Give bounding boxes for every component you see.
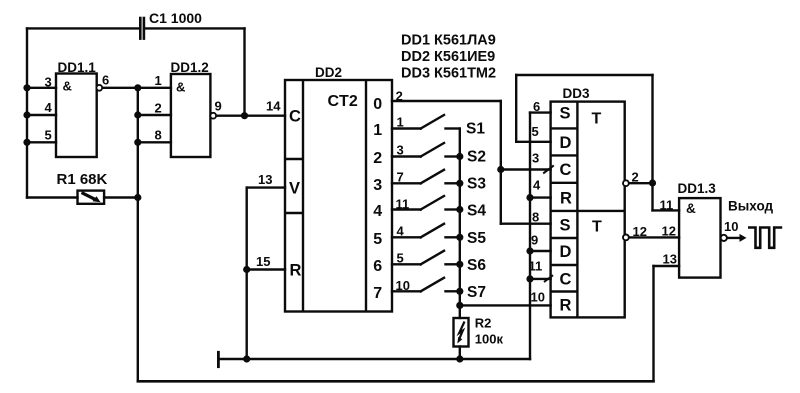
wire reset line to DD3 pin 10 <box>460 304 551 306</box>
resistor R1 body <box>78 191 105 204</box>
capacitor C1 <box>140 18 144 39</box>
svg-text:3: 3 <box>397 143 404 158</box>
svg-text:DD1.2: DD1.2 <box>171 60 209 75</box>
IC DD2 left column divider <box>302 80 304 312</box>
junction DD3 pin 2 output node <box>649 179 656 186</box>
svg-text:100к: 100к <box>475 332 504 347</box>
svg-text:D: D <box>560 243 572 261</box>
junction common rail left <box>243 355 250 362</box>
wire DD2 output 7 stub <box>392 290 421 292</box>
svg-text:2: 2 <box>632 170 639 185</box>
wire common rail <box>218 358 530 360</box>
svg-text:DD2: DD2 <box>315 65 342 80</box>
IC DD3 flip-flop divider <box>551 210 625 212</box>
wire left bus vertical <box>26 28 28 197</box>
IC DD2 body <box>285 80 392 312</box>
wire DD1.3 output arrow line <box>727 237 741 239</box>
IC DD3 S1-D1 cell line <box>551 127 578 129</box>
junction S3 <box>456 180 463 187</box>
junction DD2 pin 15 node <box>243 266 250 273</box>
svg-text:10: 10 <box>396 278 410 293</box>
wire feedback up leg <box>651 75 653 183</box>
svg-text:DD2 К561ИЕ9: DD2 К561ИЕ9 <box>401 49 495 65</box>
wire DD3 pin 2 output to node <box>629 182 652 184</box>
svg-text:7: 7 <box>373 285 382 302</box>
junction DD1.1 pin 5 <box>23 139 30 146</box>
junction DD1.1 pin 4 <box>23 111 30 118</box>
switch S4 <box>421 196 459 210</box>
junction DD1.1 pin 3 <box>23 84 30 91</box>
svg-text:4: 4 <box>45 100 53 115</box>
IC DD3 D2-C2 cell line <box>551 264 578 266</box>
wire top rail right of C1 <box>145 27 245 29</box>
svg-text:T: T <box>592 219 602 236</box>
wire DD2 output 5 stub <box>392 236 421 238</box>
svg-text:4: 4 <box>397 224 405 239</box>
wire DD2 output 6 stub <box>392 263 421 265</box>
junction DD2 pin 14 node <box>241 112 248 119</box>
svg-text:1: 1 <box>397 115 404 130</box>
wire DD3 pin 9 stub <box>530 250 551 252</box>
output waveform symbol <box>748 228 782 248</box>
svg-text:S2: S2 <box>467 149 486 166</box>
wire DD2 output 1 stub <box>392 127 421 129</box>
junction switch bus R2 top <box>456 302 463 309</box>
arrowhead output <box>740 234 747 242</box>
svg-text:R: R <box>290 262 302 280</box>
wire DD2 output 3 stub <box>392 182 421 184</box>
inversion bubble DD3 pin 2 <box>623 180 629 186</box>
wire DD1.3 pin 13 down leg <box>652 266 654 381</box>
svg-text:CT2: CT2 <box>328 93 358 110</box>
svg-text:6: 6 <box>373 258 382 275</box>
wire R1 to mid bus <box>104 196 138 198</box>
wire R2 bottom to common rail <box>459 347 461 360</box>
svg-text:12: 12 <box>633 224 647 239</box>
junction S4 <box>456 206 463 213</box>
wire bottom rail <box>138 380 654 383</box>
junction DD3 pin 4 <box>526 194 533 201</box>
wire DD3 pin 4 stub <box>530 196 551 198</box>
svg-text:&: & <box>63 79 72 94</box>
wire switch bus to R2 <box>459 305 461 318</box>
svg-text:5: 5 <box>532 124 539 139</box>
wire C1 right leg down to node at DD2 pin 14 <box>243 28 245 115</box>
junction DD3 pin 3 clock node <box>497 166 504 173</box>
svg-text:8: 8 <box>155 128 162 143</box>
svg-text:5: 5 <box>45 128 52 143</box>
svg-text:14: 14 <box>266 99 281 114</box>
svg-text:DD3: DD3 <box>563 86 590 101</box>
svg-text:13: 13 <box>258 172 272 187</box>
svg-text:C: C <box>560 161 572 179</box>
svg-text:S5: S5 <box>467 230 486 247</box>
wire DD1.3 pin 13 stub <box>654 265 680 267</box>
svg-text:11: 11 <box>529 259 543 274</box>
inversion bubble DD3 pin 12 <box>623 235 629 241</box>
dynamic input slash DD3 C1 <box>544 166 553 173</box>
IC DD2 C-V cell line <box>285 158 303 160</box>
junction mid bus pin 6 <box>134 84 141 91</box>
IC DD3 C1-R1 cell line <box>551 182 578 184</box>
svg-text:0: 0 <box>373 96 382 113</box>
wire DD2 output 0 down leg <box>500 101 502 170</box>
svg-text:S: S <box>560 217 571 235</box>
wire DD2 output 4 stub <box>392 208 421 210</box>
resistor R2 bolt arrowhead <box>457 337 462 344</box>
svg-text:C: C <box>560 271 572 289</box>
wire DD3 common bus vertical <box>529 113 531 359</box>
IC DD3 S2-D2 cell line <box>551 237 578 239</box>
svg-text:1: 1 <box>373 122 382 139</box>
wire DD3 pin 6 stub <box>530 111 551 113</box>
wire DD3 pin 3 stub <box>501 168 551 170</box>
IC DD2 right column divider <box>365 80 367 312</box>
wire top rail left of C1 <box>27 27 139 29</box>
resistor R2 bolt <box>459 322 465 341</box>
svg-text:4: 4 <box>373 203 382 220</box>
svg-text:2: 2 <box>155 101 162 116</box>
svg-text:5: 5 <box>373 231 382 248</box>
svg-text:S7: S7 <box>467 284 486 301</box>
switch S2 <box>421 143 459 157</box>
wire feedback top horizontal <box>516 74 652 76</box>
wire DD1.2 output pin 9 to DD2 pin 14 <box>216 114 285 116</box>
svg-text:15: 15 <box>256 254 270 269</box>
svg-text:&: & <box>176 80 185 95</box>
IC DD3 C2-R2 cell line <box>551 290 578 292</box>
wire feedback down leg to DD3 pin 5 <box>515 75 517 142</box>
svg-text:S3: S3 <box>467 176 486 193</box>
wire node to DD3 pin 8 down leg <box>500 170 502 224</box>
wire DD3 pin 5 stub <box>516 141 550 143</box>
wire DD2 output 2 stub <box>392 155 421 157</box>
svg-text:R: R <box>560 190 572 208</box>
wire DD3 pin 12 output to DD1.3 pin 12 <box>629 236 679 238</box>
junction S5 <box>456 234 463 241</box>
resistor R1 slash <box>82 193 97 200</box>
svg-text:7: 7 <box>397 170 404 185</box>
IC DD3 D1-C1 cell line <box>551 154 578 156</box>
svg-text:C: C <box>289 108 301 126</box>
wire DD3 pin 11 stub <box>530 278 551 280</box>
svg-text:11: 11 <box>396 197 410 212</box>
svg-text:D: D <box>560 134 572 152</box>
svg-text:6: 6 <box>102 73 109 88</box>
svg-text:2: 2 <box>396 89 403 104</box>
wire DD1.1 pin 4 stub <box>27 114 56 116</box>
resistor R2 body <box>454 318 469 347</box>
junction DD3 pin 9 <box>526 247 533 254</box>
svg-text:S6: S6 <box>467 257 486 274</box>
junction mid bus pin 8 <box>134 139 141 146</box>
IC DD3 body <box>551 102 625 318</box>
junction S2 <box>456 153 463 160</box>
wire DD2 V-R vertical <box>245 188 247 359</box>
svg-text:S1: S1 <box>466 121 485 138</box>
dynamic input slash DD3 C2 <box>544 275 553 282</box>
resistor R1 slash arrowhead <box>93 196 101 202</box>
wire switch bus vertical <box>459 129 461 306</box>
svg-text:C1 1000: C1 1000 <box>149 10 202 26</box>
svg-text:1: 1 <box>155 73 162 88</box>
svg-text:Выход: Выход <box>728 199 774 214</box>
svg-text:13: 13 <box>663 252 677 267</box>
junction DD3 pin 11 <box>526 275 533 282</box>
svg-text:9: 9 <box>531 233 538 248</box>
junction S6 <box>456 261 463 268</box>
junction mid bus pin 2 <box>134 111 141 118</box>
svg-text:R1 68K: R1 68K <box>57 171 108 188</box>
svg-text:S: S <box>560 105 571 123</box>
svg-text:3: 3 <box>373 177 382 194</box>
svg-text:12: 12 <box>662 224 676 239</box>
junction S7 <box>456 288 463 295</box>
wire DD1.2 pin 2 stub <box>138 114 171 116</box>
svg-text:S4: S4 <box>467 203 486 220</box>
switch S7 <box>421 278 459 292</box>
wire DD1.1 pin 3 stub <box>27 87 56 89</box>
svg-text:3: 3 <box>532 151 539 166</box>
IC DD1.1 body <box>56 74 97 158</box>
switch S3 <box>421 170 459 184</box>
wire DD2 pin 13 stub <box>247 186 285 188</box>
svg-text:3: 3 <box>45 75 52 90</box>
svg-text:10: 10 <box>531 290 545 305</box>
terminal tick common rail <box>217 352 220 366</box>
junction R2 bottom common <box>456 355 463 362</box>
wire DD1.1 output pin 6 to DD1.2 pin 1 <box>102 87 171 89</box>
svg-text:DD1 К561ЛА9: DD1 К561ЛА9 <box>401 33 496 49</box>
svg-text:R: R <box>560 297 572 315</box>
switch S5 <box>421 224 459 238</box>
wire mid bus vertical <box>137 88 139 382</box>
svg-text:2: 2 <box>373 150 382 167</box>
wire DD1.2 pin 8 stub <box>138 141 171 143</box>
inversion bubble DD1.2 pin 9 <box>210 113 216 119</box>
svg-text:DD1.3: DD1.3 <box>678 181 717 196</box>
svg-text:V: V <box>289 180 300 198</box>
inversion bubble DD1.3 pin 10 <box>721 235 727 241</box>
wire DD1.1 pin 5 stub <box>27 141 56 143</box>
wire node to DD1.3 pin 11 <box>651 183 653 210</box>
wire left bus to R1 <box>27 196 78 198</box>
svg-text:11: 11 <box>660 198 674 213</box>
switch S6 <box>421 251 459 264</box>
svg-text:5: 5 <box>397 251 404 266</box>
IC DD1.2 body <box>171 74 211 157</box>
wire DD2 pin 15 stub <box>247 268 285 270</box>
inversion bubble DD1.1 pin 6 <box>96 85 102 91</box>
svg-text:10: 10 <box>724 219 738 234</box>
switch S1 <box>421 115 459 129</box>
svg-text:6: 6 <box>533 99 540 114</box>
junction mid bus R1 <box>134 194 141 201</box>
svg-text:T: T <box>592 111 602 128</box>
IC DD3 left column divider <box>576 102 578 318</box>
svg-text:8: 8 <box>532 210 539 225</box>
svg-text:9: 9 <box>215 99 222 114</box>
svg-text:DD1.1: DD1.1 <box>58 60 97 75</box>
wire DD3 pin 8 stub <box>501 222 551 224</box>
IC DD2 V-R cell line <box>285 212 303 214</box>
wire DD2 output 0 pin 2 horizontal <box>392 100 501 102</box>
IC DD1.3 body <box>679 198 720 278</box>
svg-text:4: 4 <box>533 178 541 193</box>
wire DD1.3 pin 11 stub <box>653 209 680 211</box>
svg-text:DD3 К561ТМ2: DD3 К561ТМ2 <box>401 66 496 82</box>
svg-text:R2: R2 <box>475 316 492 331</box>
svg-text:&: & <box>686 201 696 216</box>
